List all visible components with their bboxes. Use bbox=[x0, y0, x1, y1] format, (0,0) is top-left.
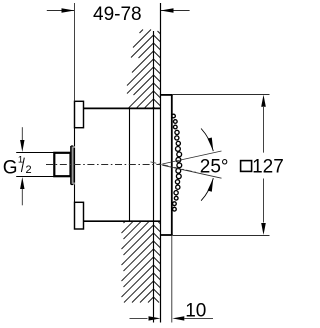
mounting tab bottom bbox=[75, 202, 84, 229]
extension line head face (for dim 10) bbox=[171, 235, 173, 323]
extension line head top bbox=[173, 94, 270, 96]
svg-text:49-78: 49-78 bbox=[93, 4, 142, 25]
body bottom edge bbox=[75, 220, 161, 222]
wall hatching lower section (finish layer, reverse 45deg) bbox=[154, 221, 161, 302]
angle leg upper bbox=[162, 151, 221, 164]
dim 49-78 line left bbox=[47, 8, 75, 12]
head bottom edge bbox=[160, 234, 173, 236]
wall hatching upper section (rough wall, 45deg) bbox=[127, 30, 154, 109]
mounting tab top bbox=[75, 101, 84, 127]
body left face bbox=[74, 128, 76, 203]
union nut bbox=[54, 153, 70, 176]
extension line left (body face) bbox=[74, 3, 76, 101]
body joint line bbox=[129, 108, 131, 221]
label 25deg bbox=[200, 156, 229, 177]
head top edge bbox=[160, 94, 173, 96]
svg-text:127: 127 bbox=[252, 157, 284, 178]
angle arc lower with arrow bbox=[201, 178, 213, 201]
dim G1/2 upper arrow bbox=[20, 127, 24, 152]
supply pipe outline / G1/2 extension lines bbox=[16, 153, 54, 177]
head face line bbox=[171, 95, 173, 235]
fitting flange bbox=[70, 146, 75, 185]
angle leg lower bbox=[162, 165, 221, 178]
svg-text:2: 2 bbox=[26, 164, 32, 176]
dim 127 line upper bbox=[261, 95, 266, 153]
wall rough-face line bbox=[153, 31, 155, 323]
svg-text:G: G bbox=[3, 158, 18, 179]
dim 10 line right bbox=[172, 316, 213, 320]
dim 10 line left bbox=[130, 316, 161, 320]
label 49-78 bbox=[93, 4, 142, 25]
spray face bead profile bbox=[172, 114, 182, 211]
svg-text:25°: 25° bbox=[200, 156, 229, 177]
svg-text:1: 1 bbox=[18, 154, 23, 165]
dim G1/2 lower arrow bbox=[20, 177, 24, 205]
wall hatching lower section (rough wall, 45deg) bbox=[122, 221, 154, 302]
angle arc upper with arrow bbox=[201, 129, 213, 152]
tilted spray axis (dash-dot) bbox=[151, 162, 198, 173]
wall finished-face line (also extension line for 49-78 and 10) bbox=[160, 3, 162, 323]
label G 1/2 bbox=[3, 154, 32, 178]
extension line head bottom bbox=[173, 235, 270, 237]
label square 127 bbox=[241, 157, 284, 178]
label 10 bbox=[185, 301, 206, 322]
horizontal centerline (dash-dot) bbox=[46, 164, 162, 166]
dim 49-78 line right bbox=[161, 8, 190, 12]
dim 127 line lower bbox=[261, 179, 266, 236]
body top edge bbox=[75, 107, 161, 109]
wall hatching upper section (finish layer, reverse 45deg) bbox=[154, 31, 161, 108]
svg-text:10: 10 bbox=[185, 301, 206, 322]
